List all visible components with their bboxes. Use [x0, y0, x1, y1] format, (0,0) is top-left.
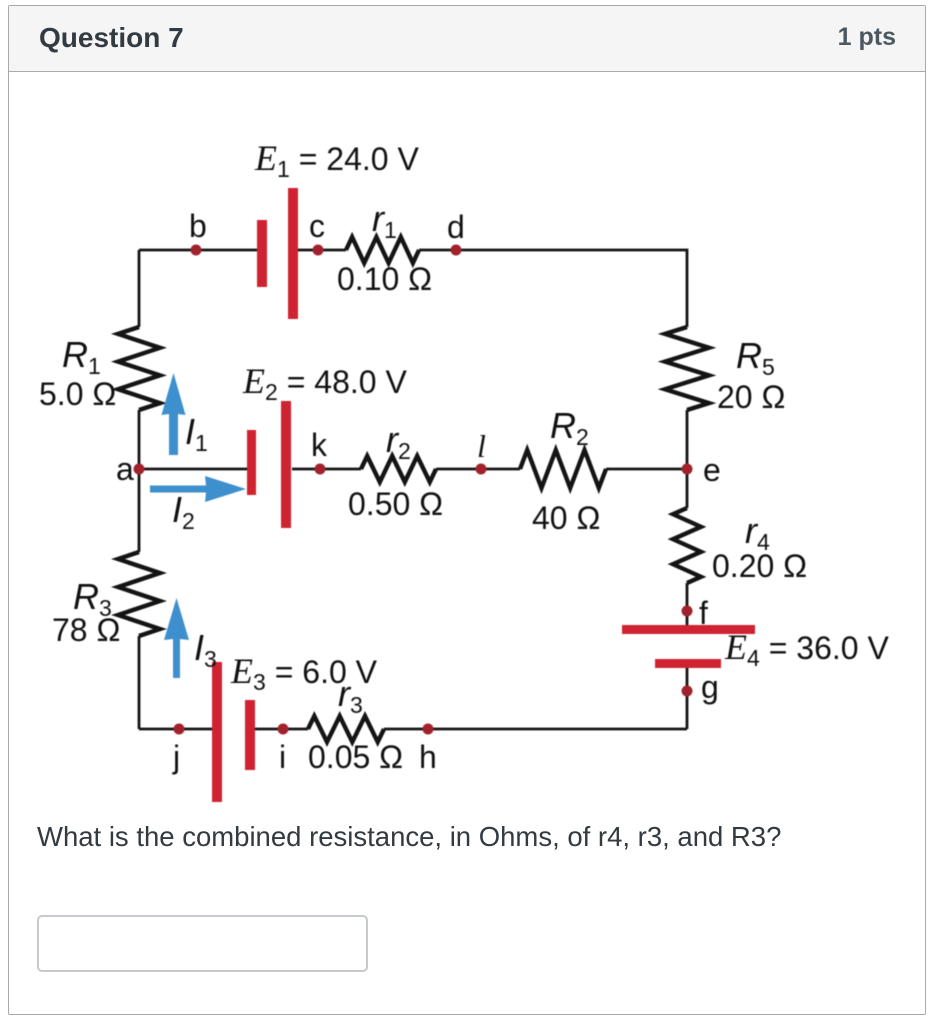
svg-text:0.05 Ω: 0.05 Ω: [308, 739, 403, 775]
node k: [315, 464, 326, 475]
wire R2 to node e: [606, 468, 687, 471]
svg-text:R1: R1: [62, 334, 101, 379]
resistor R2 40 ohm: [520, 450, 606, 488]
wire R1 up to top-left corner: [138, 250, 141, 327]
battery E4 negative plate: [655, 659, 721, 668]
wire bottom: corner to r3 through node h: [384, 728, 687, 731]
node i: [278, 724, 289, 735]
svg-text:r4: r4: [745, 510, 770, 555]
node l: [476, 464, 487, 475]
node d: [451, 245, 462, 256]
resistor r1 0.10 ohm: [346, 237, 419, 263]
wire battery E3 to bottom-left corner through node j: [139, 728, 212, 731]
battery E1 positive plate: [288, 188, 298, 319]
svg-text:j: j: [172, 739, 180, 775]
resistor r4 0.20 ohm: [673, 508, 701, 583]
wire R5 to r4 through node e: [686, 410, 689, 508]
svg-text:I3: I3: [194, 627, 217, 672]
svg-text:f: f: [699, 595, 708, 631]
svg-text:E3 = 6.0 V: E3 = 6.0 V: [230, 651, 378, 695]
battery E3 positive plate: [212, 662, 222, 802]
node e: [682, 464, 693, 475]
svg-text:l: l: [477, 428, 486, 464]
svg-text:g: g: [701, 669, 719, 705]
svg-text:E1 = 24.0 V: E1 = 24.0 V: [254, 138, 419, 182]
current arrow I1: [162, 373, 186, 455]
svg-text:r2: r2: [386, 419, 411, 464]
svg-text:I1: I1: [185, 411, 208, 456]
svg-text:40 Ω: 40 Ω: [532, 500, 600, 536]
svg-text:R3: R3: [73, 576, 112, 621]
resistor R1 5.0 ohm: [118, 327, 160, 410]
resistor R3 78 ohm: [118, 552, 160, 636]
svg-text:d: d: [447, 209, 465, 245]
battery E3 negative plate: [245, 700, 255, 770]
resistor R5 20 ohm: [665, 327, 709, 410]
battery E2 positive plate: [281, 401, 291, 528]
svg-text:I2: I2: [172, 489, 195, 534]
svg-text:a: a: [116, 451, 134, 487]
svg-text:k: k: [311, 427, 328, 463]
wire r2 to R2 through node l: [436, 468, 520, 471]
svg-text:R5: R5: [736, 335, 775, 380]
svg-text:20 Ω: 20 Ω: [717, 379, 785, 415]
svg-text:e: e: [703, 452, 721, 488]
svg-text:c: c: [309, 208, 325, 244]
node g: [682, 686, 693, 697]
node h: [423, 724, 434, 735]
wire R3 to node a: [138, 410, 141, 552]
svg-text:E2 = 48.0 V: E2 = 48.0 V: [242, 361, 407, 405]
node j: [174, 724, 185, 735]
svg-text:r1: r1: [372, 198, 397, 243]
svg-text:5.0 Ω: 5.0 Ω: [39, 376, 116, 412]
node c: [313, 245, 324, 256]
wire r1 to top-right corner and down to R5: [419, 250, 687, 327]
wire left rail: bottom corner up to R3: [138, 636, 141, 729]
wire battery E1 to r1: [298, 249, 346, 252]
battery E4 positive plate: [622, 625, 755, 634]
svg-text:0.50 Ω: 0.50 Ω: [348, 486, 443, 522]
svg-text:0.10 Ω: 0.10 Ω: [337, 261, 432, 297]
node f: [682, 606, 693, 617]
wire node a to battery E2: [139, 468, 247, 471]
battery E2 negative plate: [247, 430, 256, 495]
current arrow I3: [164, 598, 189, 678]
svg-text:h: h: [419, 739, 437, 775]
wire r4 to battery E4 through node f: [686, 583, 689, 625]
battery E1 negative plate: [257, 220, 267, 287]
current arrow I2: [150, 476, 246, 502]
wire battery E4 to bottom-right corner through node g: [686, 668, 689, 729]
svg-text:b: b: [189, 208, 207, 244]
wire top-left: b to battery E1: [139, 249, 257, 252]
node b: [191, 245, 202, 256]
wire r3 to battery E3 through node i: [255, 728, 308, 731]
resistor r2 0.50 ohm: [361, 456, 436, 482]
svg-text:R2: R2: [550, 405, 589, 450]
node a: [134, 464, 145, 475]
svg-text:i: i: [279, 739, 286, 775]
wire battery E2 to r2 through node k: [292, 468, 361, 471]
resistor r3 0.05 ohm: [308, 716, 384, 742]
